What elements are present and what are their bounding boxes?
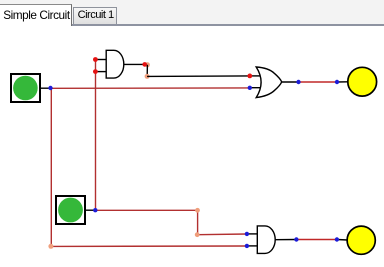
junction: AND U1 output corner (salmon) (145, 62, 150, 67)
wire: input SW2 output stub (86, 209, 95, 211)
lamp L2 (347, 226, 375, 254)
node: lamp L1 input pin (blue) (335, 80, 339, 84)
wire: AND U1 input stubs (95, 59, 106, 61)
AND gate U1 (106, 50, 124, 78)
junction: corner (salmon) (195, 208, 200, 213)
wire: lamp L1 stub (black) (337, 81, 348, 83)
wire: corner drop (black vertical) (146, 65, 148, 77)
lamp L1 (348, 67, 377, 96)
wire: lamp L2 feed (red) (296, 239, 337, 241)
wire: SW2 node right (horizontal) (96, 209, 198, 211)
junction: corner (salmon) (195, 232, 200, 237)
node: OR U2 input pin B (blue) (248, 86, 252, 90)
junction: bottom-left corner (salmon) (48, 244, 53, 249)
input switch SW2 (56, 196, 85, 224)
wire: SW2 node up to AND gate U1 inputs (vertical) (95, 60, 97, 211)
wire: AND U1 output stub (black) (124, 63, 148, 65)
input switch SW1 (11, 74, 40, 102)
node: OR U2 input pin A (red) (247, 74, 252, 79)
wire: lamp L1 feed (red) (298, 81, 337, 83)
AND gate U3 (257, 226, 275, 254)
node: AND U1 input pin A (red) (93, 57, 98, 62)
wire: right drop (vertical) (197, 210, 199, 234)
node: AND U1 output pin (red) (142, 62, 147, 67)
wire: OR U2 output stub (black) (282, 81, 299, 83)
node: AND U3 input pin A (blue) (245, 232, 249, 236)
node: AND U1 input pin B (red) (93, 69, 98, 74)
node: SW1 output pin (blue) (48, 86, 52, 90)
node: lamp L2 input pin (blue) (335, 237, 339, 241)
tab bar (0, 0, 384, 24)
wire: to AND gate U3 input A (horizontal) (198, 233, 247, 236)
wire: AND U3 input stubs (247, 233, 258, 235)
wire: OR U2 input stubs (250, 75, 261, 77)
node: AND U3 input pin B (blue) (245, 244, 249, 248)
junction: corner (salmon) (145, 74, 150, 79)
OR gate U2 (256, 67, 282, 98)
wire: SW1 node down left rail (vertical) (50, 88, 52, 246)
node: OR U2 output pin (blue) (296, 80, 300, 84)
wire: to OR gate U2 input A (black horizontal) (147, 75, 250, 78)
node: AND U3 output pin (blue) (294, 237, 298, 241)
wire: input SW1 output stub (41, 87, 51, 89)
node: SW2 output pin (blue) (93, 208, 97, 212)
wire: AND U3 output stub (black) (275, 239, 296, 241)
wire: bottom rail to AND gate U3 input B (horizontal) (51, 245, 247, 247)
wire: lamp L2 stub (black) (337, 239, 348, 242)
wire: SW1 node to OR gate U2 input B (horizontal) (51, 87, 250, 89)
